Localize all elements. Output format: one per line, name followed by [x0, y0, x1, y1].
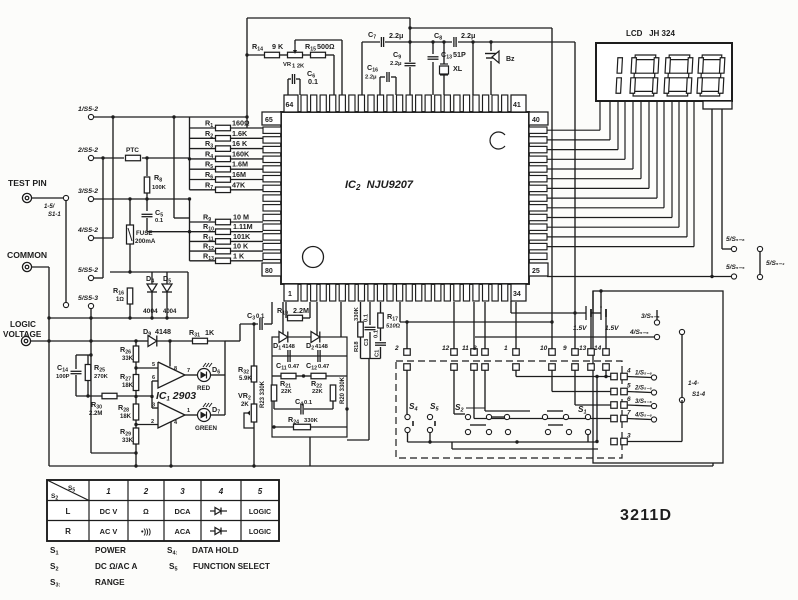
switch S2 contact b1 — [465, 429, 470, 434]
wire group down — [368, 359, 370, 441]
wire 5/S5-5 drop — [711, 109, 713, 277]
wire R16 bottom — [129, 304, 131, 318]
VR1 wiper arrow — [293, 44, 297, 54]
resistor R16 — [127, 288, 133, 304]
switch S1-1 bottom contact — [63, 302, 68, 307]
junction — [245, 115, 248, 118]
svg-text:5/S₅₋₄: 5/S₅₋₄ — [766, 260, 785, 267]
svg-text:C1: C1 — [375, 349, 381, 357]
switch contact 5/S5-4 top — [757, 246, 762, 251]
switch contact 1/S5-6 — [651, 375, 656, 380]
svg-text:11: 11 — [462, 345, 469, 352]
resistor R8 — [144, 177, 150, 193]
wire to pad8 — [484, 302, 486, 349]
switch S2 contact b2 — [486, 429, 491, 434]
pad 5 inner — [611, 388, 618, 395]
wire — [230, 221, 263, 223]
wire pin 6 — [152, 380, 158, 382]
switch contact 5/S5-5 — [731, 274, 736, 279]
wire pin 4 ground — [170, 422, 172, 466]
wire — [174, 217, 190, 219]
diode D4 — [147, 284, 157, 292]
svg-text:7: 7 — [187, 368, 190, 374]
svg-text:6: 6 — [627, 396, 631, 403]
wire 3/S5-5 — [656, 310, 658, 320]
wire — [32, 266, 49, 268]
pad 6 inner — [611, 402, 618, 409]
svg-text:12: 12 — [442, 345, 450, 352]
wire row 5 — [552, 391, 611, 393]
switch contact 5/S5-4 bottom — [757, 274, 762, 279]
svg-text:5/S₅₋₆: 5/S₅₋₆ — [726, 236, 745, 243]
svg-text:1.6K: 1.6K — [232, 129, 248, 138]
wire 5/S5-4 — [759, 252, 761, 275]
svg-text:80: 80 — [265, 268, 273, 275]
resistor R32 — [251, 366, 257, 382]
wire — [247, 54, 264, 56]
switch contact 3/S5-2 — [88, 196, 93, 201]
capacitor C3 — [365, 327, 376, 329]
diode D2 — [311, 332, 320, 343]
svg-text:200mA: 200mA — [135, 238, 156, 245]
wire cap rail — [272, 355, 347, 357]
wire pad1 down — [515, 370, 517, 377]
svg-text:2.2M: 2.2M — [89, 411, 102, 417]
wire — [326, 375, 347, 377]
svg-text:5/S₅₋₅: 5/S₅₋₅ — [726, 264, 745, 271]
wire R3 row — [190, 148, 217, 150]
capacitor C6 — [292, 74, 294, 84]
wire XL top lead — [443, 42, 445, 64]
wire R6 row — [190, 179, 217, 181]
wire — [230, 158, 263, 160]
op-amp IC1b — [158, 402, 185, 428]
svg-text:1: 1 — [187, 408, 190, 414]
wire S1 mid bar — [548, 424, 563, 426]
terminal TEST PIN — [22, 193, 31, 202]
svg-text:10: 10 — [540, 345, 548, 352]
resistor R9 — [216, 219, 231, 225]
pad 10 lower — [549, 364, 556, 371]
wire D4 cathode — [151, 292, 153, 318]
crystal XL — [440, 64, 449, 75]
svg-text:LOGIC: LOGIC — [249, 529, 271, 536]
wire C14/R25 top rail — [76, 354, 91, 356]
wire R17 bottom — [380, 328, 382, 341]
switch S5 contact b — [427, 427, 432, 432]
wire VR1 wiper up — [294, 40, 296, 44]
svg-text:7: 7 — [627, 410, 631, 417]
wire C6 right lead — [299, 79, 301, 95]
wire S2 bar — [466, 407, 485, 409]
svg-text:VR: VR — [283, 62, 292, 68]
wire fuse bottom — [129, 244, 131, 272]
wire R17 top — [380, 302, 382, 313]
wire — [230, 260, 263, 262]
resistor R11 — [216, 239, 231, 245]
svg-text:13: 13 — [579, 345, 587, 352]
junction — [145, 156, 148, 159]
wire LED cathode rail — [224, 341, 226, 415]
table diode symbol — [210, 508, 227, 515]
junction — [89, 316, 92, 319]
wire pin 5 — [136, 367, 158, 369]
svg-text:101K: 101K — [233, 232, 251, 241]
wire feed rail — [400, 321, 552, 323]
junction — [145, 197, 148, 200]
junction — [573, 311, 576, 314]
capacitor C14 — [71, 371, 82, 373]
wire pad12 down — [453, 370, 455, 414]
lower filter box — [272, 337, 347, 437]
svg-text:DC V: DC V — [100, 507, 118, 516]
wire — [288, 78, 291, 80]
wire to pin — [271, 302, 273, 324]
wire S5 down — [429, 433, 431, 442]
wire C3 right lead — [264, 323, 272, 325]
IC U2 body - IC2 NJU9207 — [281, 112, 529, 284]
wire to pad 14 — [605, 317, 607, 349]
svg-text:FUSE: FUSE — [136, 230, 153, 237]
svg-text:0.1: 0.1 — [256, 314, 265, 320]
junction — [134, 451, 137, 454]
svg-text:0.1: 0.1 — [155, 218, 164, 224]
junction — [302, 374, 305, 377]
svg-text:47K: 47K — [232, 180, 246, 189]
wire C13 top lead — [432, 42, 434, 54]
switch contact 2/S5-6 — [651, 390, 656, 395]
pad 13 upper — [588, 349, 595, 356]
wire — [326, 54, 334, 56]
wire Bz bottom lead — [490, 61, 492, 95]
wire fuse top — [129, 199, 131, 225]
wire 4/S5-2 row — [94, 237, 113, 239]
wire — [311, 426, 348, 428]
wire pin drop — [399, 302, 401, 322]
resistor R19 — [288, 315, 303, 321]
pin 34 label box — [511, 284, 526, 301]
wire row 3 to S1-4 — [627, 441, 682, 443]
wire R19 left — [285, 302, 287, 318]
svg-text:2/S₅₋₆: 2/S₅₋₆ — [634, 386, 653, 392]
svg-text:510Ω: 510Ω — [386, 324, 401, 330]
svg-text:9 K: 9 K — [272, 42, 284, 51]
pad 5 outer — [621, 388, 628, 395]
wire left drop to R1 row — [246, 18, 248, 128]
svg-text:S1-1: S1-1 — [48, 212, 61, 218]
LED D6 red — [198, 363, 213, 382]
IC2 bottom pin row — [301, 284, 508, 301]
wire — [230, 148, 263, 150]
switch contact 2/S5-2 — [88, 155, 93, 160]
junction — [599, 289, 602, 292]
dashed switch matrix box — [396, 361, 622, 458]
svg-text:8: 8 — [174, 366, 177, 372]
svg-text:0.1: 0.1 — [364, 313, 370, 322]
junction — [89, 353, 92, 356]
switch S1 contact b1 — [545, 429, 550, 434]
svg-text:0.1: 0.1 — [374, 329, 380, 338]
svg-text:1: 1 — [106, 487, 111, 496]
wire lower bus 3 — [452, 448, 598, 450]
pad 13 lower — [588, 364, 595, 371]
wire R5 row — [190, 168, 217, 170]
svg-text:0.47: 0.47 — [288, 364, 299, 370]
capacitor C1 — [375, 343, 386, 345]
wire — [157, 340, 192, 342]
wire — [385, 41, 452, 43]
LCD module JH324 — [596, 43, 732, 101]
svg-text:AC V: AC V — [100, 527, 118, 536]
svg-text:2: 2 — [151, 419, 154, 425]
op-amp IC1a — [158, 362, 185, 388]
junction — [252, 322, 255, 325]
pad 2 upper — [404, 349, 411, 356]
switch contact 5/S5-3 — [88, 303, 93, 308]
resistor R21 — [281, 373, 296, 379]
wire comparator input link — [151, 381, 153, 408]
wire R7 row — [190, 189, 217, 191]
svg-text:1: 1 — [504, 345, 508, 352]
wire pin 8 supply — [169, 341, 171, 367]
svg-text:34: 34 — [513, 291, 521, 298]
wire R8 top — [146, 158, 148, 176]
wire — [230, 189, 263, 191]
svg-text:LOGIC: LOGIC — [249, 509, 271, 516]
junction — [172, 115, 175, 118]
junction — [134, 366, 137, 369]
switch S1 contact b2 — [566, 429, 571, 434]
wire pad8 down — [484, 370, 486, 411]
wire op1 out — [185, 374, 197, 376]
pin 25 label box — [529, 263, 548, 276]
pad 4 inner — [611, 373, 618, 380]
wire C16 left lead — [379, 77, 381, 95]
wire C16 right lead — [395, 77, 397, 95]
wire signal to comparators — [117, 395, 152, 397]
svg-text:10 K: 10 K — [233, 242, 249, 251]
wire Bz top lead — [490, 42, 492, 51]
wire C5 down — [146, 218, 148, 232]
svg-text:65: 65 — [265, 117, 273, 124]
resistor R22 — [311, 373, 326, 379]
svg-text:DATA HOLD: DATA HOLD — [192, 546, 239, 555]
pad 3 outer — [621, 438, 628, 445]
svg-text:0.1: 0.1 — [304, 400, 313, 406]
svg-text:3: 3 — [627, 433, 631, 440]
wire R12 row — [190, 250, 217, 252]
LCD digit 1 — [616, 58, 622, 93]
wire — [280, 54, 287, 56]
potentiometer VR1 — [288, 52, 303, 58]
wire — [302, 54, 310, 56]
wire bottom ground rail — [49, 465, 713, 467]
svg-text:14: 14 — [594, 345, 602, 352]
junction — [550, 320, 553, 323]
wire — [454, 413, 465, 415]
wire — [32, 197, 63, 199]
switch S1 contact b3 — [585, 429, 590, 434]
wire R25 bottom — [87, 381, 89, 396]
wire R26-R27 — [135, 362, 137, 375]
switch S1-1 top contact — [63, 195, 68, 200]
svg-text:R23 330K: R23 330K — [260, 380, 266, 408]
pad 9 upper — [572, 349, 579, 356]
wire C7 left to pin — [361, 42, 363, 95]
wire R11 row — [190, 240, 217, 242]
svg-text:C3: C3 — [364, 338, 370, 346]
resistor R28 — [133, 404, 139, 420]
svg-text:Bz: Bz — [506, 56, 515, 63]
wire long vertical to pad 9 — [574, 42, 576, 349]
wire — [391, 76, 396, 78]
svg-text:3211D: 3211D — [620, 507, 672, 524]
wire — [230, 250, 263, 252]
pad 7 inner — [611, 415, 618, 422]
switch contact 4/S5-2 — [88, 235, 93, 240]
pad 8 lower — [482, 364, 489, 371]
wire 3/S5-6 — [627, 405, 651, 406]
junction — [595, 440, 598, 443]
resistor R20 — [330, 385, 336, 401]
junction — [489, 40, 492, 43]
wire 2/S5-6 — [627, 392, 651, 393]
wire S4 tick — [412, 421, 414, 426]
svg-text:4/S₅₋₅: 4/S₅₋₅ — [629, 329, 649, 336]
svg-text:51P: 51P — [453, 50, 466, 59]
wire D6 cathode — [211, 374, 226, 376]
wire to D1 — [282, 302, 284, 337]
switch S1 contact a1 — [542, 414, 547, 419]
wire inner link — [596, 377, 598, 442]
battery/switch enclosure box — [593, 291, 723, 463]
svg-text:9: 9 — [563, 345, 567, 352]
wire to 4/S5-2 — [112, 117, 114, 238]
svg-text:6: 6 — [152, 375, 155, 381]
wire S1-1 — [65, 201, 67, 302]
switch S2 contact a2 — [486, 414, 491, 419]
wire to C3 branch — [225, 340, 240, 342]
wire VR2 bottom — [253, 422, 255, 466]
svg-text:1.11M: 1.11M — [233, 222, 253, 231]
wire left edge down — [48, 318, 50, 466]
svg-text:TEST PIN: TEST PIN — [8, 178, 47, 188]
wire lower bus 2 — [452, 441, 598, 443]
svg-text:4: 4 — [626, 368, 631, 375]
svg-text:500Ω: 500Ω — [317, 42, 335, 51]
wire long vertical to pad 10 — [551, 28, 553, 349]
resistor R6 — [216, 177, 231, 183]
wire D4/D5 top rail — [110, 271, 188, 273]
pin 64 label box — [284, 95, 298, 112]
svg-text:18K: 18K — [120, 414, 132, 420]
junction — [188, 157, 191, 160]
svg-text:16 K: 16 K — [232, 139, 248, 148]
buzzer Bz — [485, 51, 499, 63]
resistor R17 — [378, 313, 384, 328]
wire R19 right — [309, 302, 311, 318]
svg-text:100P: 100P — [56, 374, 70, 380]
capacitor C12 — [318, 350, 320, 362]
wire D4 anode — [151, 272, 153, 284]
svg-text:25: 25 — [532, 268, 540, 275]
svg-text:1-4·: 1-4· — [688, 380, 699, 387]
svg-text:LCD JH 324: LCD JH 324 — [626, 29, 675, 38]
junction — [111, 115, 114, 118]
wire to R9 bus — [173, 117, 175, 218]
wire — [451, 442, 453, 449]
wire pad11 down — [473, 370, 475, 419]
svg-text:2.2M: 2.2M — [293, 306, 309, 315]
wire 5/S5-6 drop — [721, 109, 723, 249]
wire R26 top — [135, 341, 137, 346]
junction — [47, 339, 50, 342]
wire to pad 13 — [590, 317, 592, 349]
pad 8 upper — [482, 349, 489, 356]
svg-text:2.2μ: 2.2μ — [390, 61, 402, 67]
svg-text:3: 3 — [180, 487, 185, 496]
wire R18 bottom — [360, 337, 362, 359]
IC2 top pin row — [301, 95, 508, 112]
junction — [134, 464, 137, 467]
switch S1 contact a2 — [563, 414, 568, 419]
wire 5/S5-3 down — [90, 309, 92, 453]
wire bus link — [189, 199, 191, 218]
wire 1/S5-2 row — [94, 116, 247, 118]
svg-text:GREEN: GREEN — [195, 425, 218, 432]
svg-text:1-5/: 1-5/ — [44, 204, 56, 210]
wire R15 to pin — [333, 55, 335, 95]
svg-text:L: L — [66, 507, 71, 516]
svg-text:5.9K: 5.9K — [239, 376, 252, 382]
resistor R1 — [216, 125, 231, 131]
pin 65 label box — [262, 112, 281, 125]
svg-text:FUNCTION SELECT: FUNCTION SELECT — [193, 562, 270, 571]
svg-text:S1-4: S1-4 — [692, 391, 706, 398]
wire C14 top — [75, 355, 77, 369]
wire C6 left lead — [287, 79, 289, 95]
svg-text:270K: 270K — [94, 374, 109, 380]
wire — [295, 39, 342, 41]
wire box corner to battery — [592, 291, 594, 313]
potentiometer VR2 — [251, 404, 257, 422]
svg-text:33K: 33K — [122, 356, 134, 362]
svg-text:40: 40 — [532, 117, 540, 124]
svg-text:2/S5-2: 2/S5-2 — [77, 147, 98, 154]
svg-text:22K: 22K — [312, 389, 323, 395]
junction — [710, 275, 713, 278]
svg-text:R20 330K: R20 330K — [340, 376, 346, 404]
wire R9 row — [190, 221, 217, 223]
resistor R30 — [102, 393, 117, 399]
wire to pad12 — [453, 302, 455, 349]
wire R18 top — [360, 302, 362, 322]
resistor R4 — [216, 156, 231, 162]
wire pad10 down — [551, 370, 553, 392]
svg-text:8: 8 — [473, 345, 477, 352]
svg-text:330K: 330K — [304, 418, 319, 424]
wire — [230, 231, 263, 233]
wire R32-VR2 — [253, 382, 255, 404]
wire — [136, 340, 148, 342]
wire — [332, 401, 334, 409]
junction — [604, 375, 607, 378]
svg-text:5: 5 — [152, 362, 155, 368]
svg-text:COMMON: COMMON — [7, 250, 47, 260]
function table — [47, 480, 279, 541]
wire group rail — [361, 358, 381, 360]
IC2 left pin column — [263, 127, 281, 260]
